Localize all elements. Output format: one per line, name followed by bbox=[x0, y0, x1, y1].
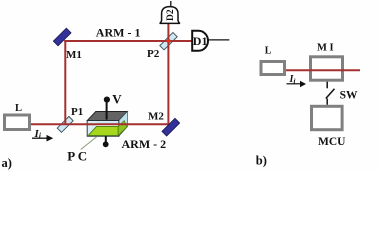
wire: left vertical beam bbox=[64, 40, 66, 125]
svg-text:V: V bbox=[112, 92, 122, 107]
switch SW top stub bbox=[326, 82, 328, 89]
pockels cell PC inner cyan band bbox=[88, 121, 118, 123]
detector D1 body bbox=[192, 31, 208, 51]
pockels cell bottom electrode knob bbox=[103, 141, 109, 147]
pockels cell top electrode stem bbox=[106, 100, 108, 120]
pockels cell PC green crystal right side bbox=[118, 121, 127, 136]
pockels cell bottom electrode stem bbox=[105, 136, 107, 142]
svg-text:MCU: MCU bbox=[318, 136, 346, 148]
svg-text:P2: P2 bbox=[147, 48, 160, 60]
laser L box (b) bbox=[261, 62, 285, 75]
svg-text:D1: D1 bbox=[193, 34, 208, 48]
svg-text:b): b) bbox=[256, 154, 267, 168]
svg-text:D2: D2 bbox=[166, 9, 176, 21]
pockels cell top electrode knob bbox=[104, 97, 110, 103]
svg-text:L: L bbox=[15, 103, 22, 114]
arrow Ii (b) bbox=[287, 83, 301, 85]
arrow Ii input beam (a) bbox=[32, 137, 48, 139]
wire: arm1 top beam bbox=[64, 40, 192, 42]
svg-text:P1: P1 bbox=[71, 106, 83, 118]
mirror box MI bbox=[311, 57, 343, 80]
pockels cell PC left inner wall bbox=[88, 121, 97, 135]
wire: D1 output bbox=[208, 39, 230, 41]
pockels cell PC front face bbox=[87, 121, 119, 137]
svg-text:SW: SW bbox=[340, 89, 358, 101]
svg-text:L: L bbox=[265, 46, 272, 57]
mirror M2 bbox=[162, 118, 180, 136]
MCU box bbox=[312, 106, 343, 129]
beamsplitter P2 bbox=[160, 33, 177, 50]
switch SW blade bbox=[326, 89, 335, 99]
svg-text:P C: P C bbox=[67, 149, 87, 164]
detector D2 dome bbox=[160, 7, 180, 24]
svg-text:M I: M I bbox=[317, 43, 334, 54]
pockels cell PC top face bbox=[87, 111, 127, 120]
switch SW bottom stub bbox=[326, 99, 328, 105]
node: P2 beam crossing dot bbox=[167, 39, 171, 43]
wire: red beam (b) bbox=[286, 69, 360, 71]
mirror M1 bbox=[53, 28, 71, 46]
wire: right vertical beam bbox=[167, 24, 169, 125]
svg-text:a): a) bbox=[2, 156, 12, 170]
svg-text:ARM - 2: ARM - 2 bbox=[122, 137, 167, 151]
svg-text:M2: M2 bbox=[148, 111, 164, 123]
svg-text:Ii: Ii bbox=[289, 74, 297, 85]
pockels cell PC green crystal bbox=[88, 126, 118, 135]
beamsplitter P1 bbox=[57, 116, 73, 132]
svg-text:M1: M1 bbox=[66, 49, 82, 61]
detector D2 stem bbox=[170, 1, 172, 7]
laser L box bbox=[5, 115, 30, 130]
pockels cell PC right side face bbox=[119, 111, 128, 136]
PC pointer line bbox=[81, 136, 98, 149]
wire: arm2 bottom beam bbox=[31, 123, 169, 125]
svg-text:ARM - 1: ARM - 1 bbox=[96, 26, 141, 40]
